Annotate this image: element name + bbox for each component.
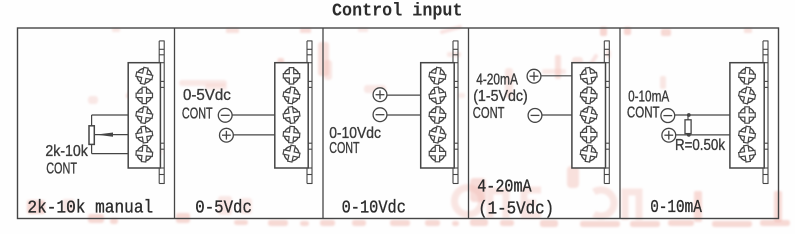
TB3 screw terminal 5 [429,145,445,161]
wire: minus to TB4 screw 3 [542,114,572,116]
TB5 screw terminal 4 [738,125,757,144]
wire: plus to TB4 screw 1 [541,75,572,77]
minus terminal (0-5Vdc CONT) [218,108,232,122]
watermark remnants (faint pink) [0,0,1,1]
wire: minus to TB3 screw 3 [387,114,421,116]
TB1 screw terminal 1 [135,66,154,85]
wire: plus to TB5 screw 4 [676,134,730,136]
module side rail (panel 1) [159,41,164,185]
TB2 screw terminal 5 [282,144,301,163]
svg-text:2k-10k manual: 2k-10k manual [27,197,153,218]
module side rail (panel 2) [307,41,312,185]
minus terminal [528,109,542,123]
TB3 screw terminal 1 [428,66,447,85]
module side rail (panel 3) [453,41,458,185]
TB3 screw terminal 2 [428,86,447,105]
svg-text:0-10Vdc: 0-10Vdc [342,197,406,218]
wiper arrow and wire to TB1 screw 4 [94,133,128,137]
TB2 screw terminal 4 [283,126,301,144]
svg-text:4-20mA: 4-20mA [476,71,518,88]
terminal block TB5 [730,63,764,168]
resistor R=0.50k [685,115,691,135]
plus terminal [220,128,234,142]
module side rail (panel 4) [604,41,609,185]
svg-text:(1-5Vdc): (1-5Vdc) [478,198,554,219]
panel divider 4 [619,28,621,219]
plus terminal (0-10Vdc) [373,88,387,102]
TB3 screw terminal 3 [429,106,447,124]
svg-text:CONT: CONT [182,105,213,122]
terminal block TB2 [275,63,308,168]
svg-text:0-10mA: 0-10mA [650,197,702,218]
minus terminal [373,108,387,122]
TB5 screw terminal 1 [738,67,756,85]
wire: minus to TB2 screw 3 [232,114,275,116]
TB5 screw terminal 3 [739,107,755,123]
TB1 screw terminal 5 [135,145,153,163]
svg-text:CONT: CONT [627,105,660,122]
TB4 screw terminal 4 [581,126,597,142]
svg-text:0-5Vdc: 0-5Vdc [195,197,252,218]
TB3 screw terminal 4 [428,125,447,144]
TB1 screw terminal 4 [135,125,154,144]
TB4 screw terminal 3 [579,105,598,124]
panel divider 1 [174,28,176,219]
wire: plus to TB3 screw 2 [387,94,421,96]
wire: plus to TB2 screw 4 [233,134,274,136]
svg-text:CONT: CONT [473,105,505,122]
wire: pot bottom to TB1 screw 5 [92,144,129,153]
panel divider 3 [468,28,470,219]
TB2 screw terminal 2 [282,86,301,105]
terminal block TB3 [421,63,455,168]
panel divider 2 [322,28,324,219]
plus terminal (4-20mA) [527,69,541,83]
wire: minus to TB5 screw 3 [675,114,730,116]
TB4 screw terminal 2 [580,87,598,105]
svg-text:0-10mA: 0-10mA [628,89,670,106]
svg-text:Control input: Control input [332,2,463,22]
terminal block TB4 [572,63,606,168]
terminal block TB1 [128,63,160,168]
TB2 screw terminal 1 [283,68,299,84]
TB4 screw terminal 5 [579,144,598,163]
junction node on plus wire [687,133,691,137]
svg-text:R=0.50k: R=0.50k [675,137,725,154]
svg-text:(1-5Vdc): (1-5Vdc) [473,88,528,105]
plus terminal [662,128,676,142]
module side rail (panel 5) [763,41,768,185]
svg-text:0-5Vdc: 0-5Vdc [183,87,231,104]
potentiometer body 2k-10k [89,126,94,145]
wire: pot top to TB1 screw 3 [92,115,129,126]
outer border frame [18,28,779,219]
TB5 screw terminal 5 [738,144,757,163]
TB2 screw terminal 3 [282,106,301,125]
junction node on minus wire [687,113,691,117]
svg-text:CONT: CONT [46,160,77,177]
minus terminal (0-10mA) [661,109,675,123]
TB1 screw terminal 3 [135,106,154,125]
TB1 screw terminal 2 [136,87,152,103]
svg-text:CONT: CONT [329,140,360,157]
TB5 screw terminal 2 [737,86,756,105]
TB4 screw terminal 1 [579,67,598,86]
svg-text:4-20mA: 4-20mA [477,177,532,198]
svg-text:2k-10k: 2k-10k [45,143,88,160]
